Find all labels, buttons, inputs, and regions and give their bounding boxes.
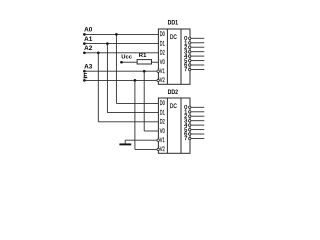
svg-text:V0: V0 <box>160 60 165 66</box>
svg-text:A0: A0 <box>84 28 93 34</box>
svg-text:V2: V2 <box>160 147 165 153</box>
svg-text:D0: D0 <box>160 101 165 107</box>
svg-text:DD1: DD1 <box>168 20 179 27</box>
svg-text:V2: V2 <box>160 78 165 84</box>
svg-text:A3: A3 <box>84 64 93 70</box>
svg-text:7: 7 <box>184 67 187 73</box>
svg-text:Ucc: Ucc <box>121 54 132 60</box>
svg-text:A2: A2 <box>84 46 93 52</box>
svg-text:D2: D2 <box>160 51 165 57</box>
svg-text:DC: DC <box>170 103 177 110</box>
svg-text:DD2: DD2 <box>168 89 179 96</box>
svg-text:A1: A1 <box>84 37 93 43</box>
svg-text:R1: R1 <box>139 53 147 59</box>
svg-text:DC: DC <box>170 34 177 41</box>
svg-text:E: E <box>83 73 87 79</box>
svg-text:V1: V1 <box>160 69 165 75</box>
svg-text:V1: V1 <box>160 138 165 144</box>
svg-text:D1: D1 <box>160 41 165 47</box>
svg-text:V0: V0 <box>160 129 165 135</box>
svg-text:7: 7 <box>184 136 187 142</box>
svg-text:D2: D2 <box>160 120 165 126</box>
svg-text:D0: D0 <box>160 32 165 38</box>
svg-text:D1: D1 <box>160 110 165 116</box>
